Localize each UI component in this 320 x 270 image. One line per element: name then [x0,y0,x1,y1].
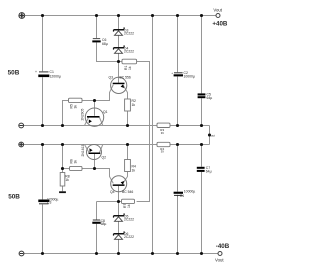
svg-text:3k: 3k [74,160,78,164]
svg-text:64µ: 64µ [206,170,212,174]
svg-text:BC 546: BC 546 [122,190,133,194]
svg-text:-40B: -40B [216,243,230,250]
svg-text:64µ: 64µ [207,96,213,100]
svg-text:+40B: +40B [212,20,227,27]
svg-text:1k: 1k [132,169,136,173]
svg-text:68µ: 68µ [101,222,107,226]
svg-text:1k: 1k [128,66,132,70]
svg-text:Vout: Vout [215,257,224,262]
svg-text:12000µ: 12000µ [50,75,61,79]
svg-text:C1: C1 [50,70,54,74]
svg-text:BC 556: BC 556 [120,76,131,80]
svg-text:1k: 1k [132,103,136,107]
svg-text:+ C4: + C4 [177,194,184,198]
svg-text:2C222: 2C222 [124,217,134,221]
svg-text:+: + [35,70,37,74]
svg-text:Vout: Vout [213,7,222,12]
svg-text:2C222: 2C222 [124,31,134,35]
svg-text:Q3: Q3 [109,76,114,80]
svg-text:50B: 50B [8,70,20,77]
svg-text:68µ: 68µ [102,42,108,46]
svg-text:3k: 3k [74,105,78,109]
svg-text:+: + [171,71,173,75]
svg-text:10000µ: 10000µ [184,190,195,194]
svg-text:2C222: 2C222 [124,49,134,53]
svg-text:2N1613: 2N1613 [81,145,85,157]
svg-text:50B: 50B [8,194,20,201]
svg-text:2N2905: 2N2905 [81,109,85,121]
svg-text:Q4: Q4 [110,190,115,194]
svg-text:2C222: 2C222 [124,235,134,239]
svg-text:10000µ: 10000µ [184,75,195,79]
svg-text:out: out [211,133,215,137]
svg-text:C3: C3 [47,200,51,204]
svg-text:Q1: Q1 [103,110,108,114]
svg-text:1k: 1k [65,178,69,182]
svg-text:Q2: Q2 [102,156,107,160]
svg-text:1k: 1k [127,204,131,208]
